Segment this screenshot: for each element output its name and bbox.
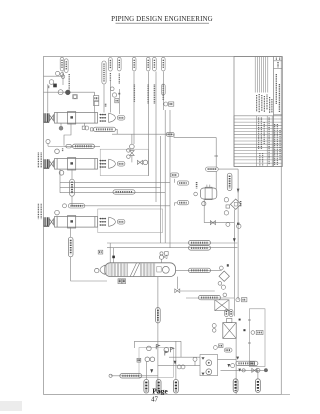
pipe line O: [221, 369, 269, 371]
instrument station box: [139, 348, 173, 378]
analyzer capsule 1 wire: [145, 362, 147, 380]
V2 gauge low: [226, 222, 230, 226]
pipe line M: [134, 340, 181, 342]
distillation column C1 shell: [105, 263, 176, 277]
suction down arrow: [174, 361, 177, 365]
discharge tag group: [236, 361, 258, 365]
wire drop to control valve: [131, 134, 133, 144]
line N end circle: [109, 374, 112, 377]
header down arrow: [237, 189, 240, 194]
line A feeder tag row: [94, 127, 116, 131]
pipe line K: [180, 290, 215, 292]
instrument bubble PI: [58, 90, 63, 95]
line L tag group: [199, 295, 221, 299]
title block outer box: [234, 57, 282, 167]
pipe line B: [64, 145, 100, 147]
instrument bubble below E1 left: [59, 126, 63, 130]
margin note 2: [38, 204, 41, 220]
pump top gauge: [214, 346, 218, 350]
riser to reflux drum: [215, 138, 217, 168]
wire from F9 down: [147, 72, 149, 177]
bottoms line level tag: [156, 308, 161, 323]
title block right strip divider: [273, 57, 275, 167]
bypass gauge: [143, 160, 148, 165]
junction block: [53, 84, 57, 88]
wire column end drop: [176, 277, 178, 289]
line F inlet circle: [63, 204, 67, 208]
discharge arrow: [227, 364, 230, 367]
drum outlet wire: [203, 199, 205, 223]
instrument tag F9: [146, 57, 150, 71]
support X-box: [215, 300, 229, 311]
svg-text:PIPING DESIGN ENGINEERING: PIPING DESIGN ENGINEERING: [111, 15, 213, 23]
wire line M left drop: [133, 341, 135, 348]
line O bowtie valve: [252, 368, 257, 372]
pipe line F: [72, 205, 170, 207]
suction flag: [171, 347, 174, 352]
wire from F5 down: [109, 81, 111, 113]
pump P1: [206, 360, 212, 366]
feed instrument square: [98, 250, 103, 254]
line B start capsule: [66, 145, 72, 148]
instrument tag F2: [65, 59, 69, 73]
inlet line top-left: [44, 75, 64, 77]
wire from F7 down to funnel tag: [118, 89, 120, 114]
analyzer capsule 1: [144, 379, 149, 393]
tap side circles: [223, 293, 227, 297]
instrument tag F1: [60, 57, 64, 71]
discharge arrow mark: [236, 357, 239, 360]
title block company text lines (rotated): [257, 94, 272, 113]
control valve body: [130, 151, 135, 156]
E4 outlet tag group: [256, 330, 263, 334]
column feed drop 2: [113, 248, 115, 263]
small capsule on F11 line: [161, 84, 165, 95]
wire E2 to lines C-E: [59, 169, 61, 193]
wire tag to line C: [71, 196, 73, 206]
title underline: [116, 22, 210, 24]
reducer symbol with tag on F11 line: [164, 102, 174, 106]
product header down right side: [233, 209, 235, 316]
wire E2 bottom drop: [71, 169, 73, 179]
drum left gauge: [194, 192, 198, 196]
V2 gauge top: [224, 198, 228, 202]
column break mark: [130, 263, 140, 277]
tag F9 label text: [147, 85, 149, 105]
V2 inner box: [234, 202, 237, 206]
control valve gauge 1: [127, 149, 131, 153]
E4 top box: [227, 318, 232, 322]
revision table rows: [234, 116, 282, 167]
pipe line A with tags: [112, 133, 174, 135]
pipe line C: [60, 182, 170, 184]
column manway circle: [162, 266, 169, 273]
pipe line I with tag: [107, 247, 237, 249]
station box outlet tag: [170, 173, 179, 177]
scan shadow bottom-left: [0, 401, 22, 411]
E4 inlet tags pair: [225, 310, 233, 317]
instrument tag F8: [132, 57, 136, 71]
wire line M right drop: [180, 341, 182, 357]
bypass bowtie valve: [137, 160, 142, 164]
margin note 1: [38, 153, 41, 169]
tag to header connector: [218, 168, 238, 170]
svg-text:47: 47: [151, 397, 158, 404]
column bottoms outlet pipe: [157, 277, 159, 395]
drum equipment tag text: [196, 182, 198, 188]
header blob: [237, 223, 239, 225]
pump nozzle dark mark 1: [201, 357, 204, 360]
drum outlet run: [204, 222, 234, 224]
revision table left border below block: [233, 116, 235, 167]
wire from F8 down: [133, 72, 135, 145]
instrument tag F4 tall: [102, 61, 106, 84]
sample capsule right 2: [256, 379, 261, 393]
footer page number: [151, 387, 168, 404]
wire E1 inlet drop: [47, 84, 49, 112]
station square tag: [137, 358, 141, 362]
line B branch instrument: [46, 139, 64, 146]
V2 side box: [226, 205, 230, 208]
vent circle with cross: [56, 71, 64, 76]
gauge tick: [48, 86, 50, 89]
analyzer capsule 2: [156, 379, 161, 393]
instrument bubble TI: [65, 90, 70, 95]
line J tag group: [189, 268, 211, 272]
column trays: [106, 263, 155, 276]
V2 gauge mid: [224, 211, 228, 215]
wire from F2 down: [62, 72, 64, 86]
column support block 1: [118, 279, 122, 284]
F7 line junction dot: [119, 93, 121, 95]
line O arrow mark: [238, 369, 241, 372]
wire E3 bottom drop: [70, 227, 72, 237]
tag F5 label text: [109, 73, 111, 81]
tag F7 label text: [118, 74, 120, 85]
instrument box below E1 right: [82, 123, 89, 130]
riser tag group: [206, 167, 219, 171]
wire tag to drum: [215, 171, 217, 190]
bubble stub: [60, 123, 62, 126]
station flag 1: [156, 344, 159, 349]
station down arrow: [150, 369, 153, 373]
drawing frame: [44, 57, 282, 395]
riser check tick: [214, 155, 218, 157]
drum bottom instrument: [202, 202, 206, 206]
utility box tick 1: [248, 319, 251, 321]
F5 line instrument: [110, 87, 114, 91]
diamond control set V2: [230, 199, 241, 209]
header gauge: [237, 224, 241, 228]
diamond PSV V3: [219, 271, 229, 281]
line O end blob: [264, 368, 268, 372]
V3 gauge below: [221, 285, 225, 289]
F1 branch circle: [61, 75, 65, 79]
pump box P1/P2: [200, 355, 218, 376]
pipe line D: [60, 187, 161, 189]
E3 right side boundary box: [98, 209, 163, 233]
tag F8 label text: [133, 85, 135, 103]
gauge circle left: [49, 80, 54, 85]
suction stub gauge: [193, 357, 197, 365]
station gauge 1: [147, 346, 152, 351]
line A small tag right: [166, 132, 174, 136]
secondary header: [237, 169, 239, 300]
frame bottom overhang: [281, 393, 290, 395]
line B tag: [73, 144, 95, 148]
instrument tag F10: [153, 57, 157, 71]
station gauge 2: [164, 348, 169, 353]
heat exchanger E2: [44, 158, 125, 170]
feeder tag lead mark: [91, 128, 93, 131]
wire E1 controller drop: [94, 101, 96, 113]
discharge gauge: [231, 364, 235, 368]
pump discharge line with tag: [218, 358, 237, 360]
pipe line N with tags: [111, 375, 158, 377]
reflux bowtie valve: [175, 289, 180, 293]
controller boxes: [94, 92, 99, 105]
instrument tag F5: [109, 58, 113, 72]
column top instrument: [159, 255, 163, 259]
instrument bubble above E2: [55, 149, 60, 154]
page title: [111, 15, 213, 23]
sample capsule 2 wire: [257, 370, 259, 378]
station gauge 4: [150, 357, 155, 362]
wire reducer down run: [164, 110, 166, 243]
wire mid parallel: [160, 136, 162, 243]
heat exchanger E3: [44, 216, 125, 228]
transmitter square: [73, 95, 77, 99]
line I tag group: [189, 246, 211, 250]
title block middle column lines: [255, 57, 268, 93]
E4 gauge lower: [212, 329, 216, 333]
exchanger X-box E4: [223, 323, 236, 339]
wire from F11 down: [162, 72, 164, 111]
column internal box: [157, 267, 161, 272]
line N tag group: [120, 374, 142, 378]
instrument bubble below E2: [59, 171, 64, 176]
column support block 2: [122, 279, 126, 284]
revision table cell text: [259, 118, 280, 166]
wire parallel right of F11: [169, 110, 171, 248]
suction gauge pair b: [181, 365, 185, 369]
title block right strip cell lines: [274, 61, 283, 115]
header tap circle: [236, 298, 240, 302]
utility box tick 2: [248, 342, 251, 344]
pipe line J overhead with tag: [176, 269, 222, 271]
reflux drum D1: [200, 188, 216, 199]
line F tag group: [68, 204, 85, 208]
pipe line L with tag: [186, 297, 234, 299]
wire from F4 down: [103, 84, 105, 112]
instrument on F6 line: [112, 93, 119, 103]
instrument tag F7: [118, 57, 122, 71]
small note tag: [250, 362, 255, 365]
pipe line E with tag: [60, 192, 166, 194]
outlet bowtie valve: [210, 221, 215, 225]
column top instrument flag: [164, 255, 167, 258]
header tap tag: [242, 298, 247, 302]
pipe L-run to column bottom feed: [71, 257, 107, 281]
V3 gauge left: [218, 282, 222, 286]
tag F10 label text: [153, 85, 155, 105]
drum nozzle stub 2: [209, 185, 211, 188]
svg-text:Page: Page: [152, 387, 168, 396]
pump top tag row: [224, 348, 232, 352]
line B sub text: [62, 148, 64, 151]
instrument air line: [44, 91, 95, 93]
pump P2: [206, 369, 212, 375]
drum line level tag: [227, 173, 232, 190]
V3 upper circle: [219, 266, 223, 270]
E4 bottoms wire: [235, 338, 237, 394]
suction header top line: [169, 356, 200, 358]
wire from F10 down: [155, 72, 157, 203]
line H tag group: [189, 241, 211, 245]
analyzer capsule 3 wire: [175, 341, 177, 379]
tag F2 label text: [68, 74, 70, 93]
line O small gauge: [242, 369, 245, 372]
control valve gauge 2: [127, 155, 131, 159]
column feed drop 1: [109, 243, 111, 263]
drum internal box: [205, 187, 212, 200]
column top nozzle: [161, 259, 163, 262]
pipe line H with tag: [107, 242, 237, 244]
line F destination tag: [175, 201, 189, 206]
title block right strip rotated text: [276, 58, 279, 112]
column left nozzle gauge: [95, 268, 99, 272]
line E tag group: [113, 190, 135, 194]
wire E1 bottom elbow to line B: [64, 123, 71, 145]
level tag below E2: [70, 179, 75, 196]
revision table column dividers: [256, 116, 272, 167]
station flag 2: [165, 351, 168, 356]
sample capsule right 1: [233, 379, 238, 393]
pump top tag: [219, 344, 223, 348]
level tag below E3: [68, 237, 73, 257]
heat exchanger E1: [44, 112, 125, 124]
E4 outlet tag circle: [251, 331, 255, 335]
line O gauge: [256, 369, 260, 373]
suction gauge pair: [177, 365, 181, 369]
marks on F5 line: [105, 104, 107, 107]
analyzer capsule 3: [174, 379, 179, 393]
feed junction block: [112, 256, 115, 259]
line C destination tag: [175, 179, 189, 185]
line junction instruments: [160, 252, 168, 256]
pump nozzle dark mark 2: [201, 373, 204, 376]
E4 side marks: [239, 319, 246, 332]
drum nozzle stub 1: [206, 185, 208, 188]
V3 dark mark: [227, 264, 229, 266]
station gauge 3: [145, 357, 150, 362]
utility station box: [249, 309, 265, 367]
instrument bubble above E3: [55, 210, 60, 215]
wire below control valve: [131, 155, 133, 162]
instrument tag F11: [162, 57, 166, 71]
pump suction header: [158, 365, 200, 367]
pipe line A continuation to drum riser: [174, 134, 216, 137]
E4 gauge upper: [212, 324, 216, 328]
column left reducer cone: [100, 265, 105, 274]
tag F11 label text: [162, 85, 164, 101]
header flow arrow: [233, 238, 236, 242]
control valve station box: [100, 149, 148, 175]
control valve actuator: [130, 144, 135, 149]
V2 side text: [240, 201, 242, 207]
feeder corner wire: [116, 129, 118, 134]
